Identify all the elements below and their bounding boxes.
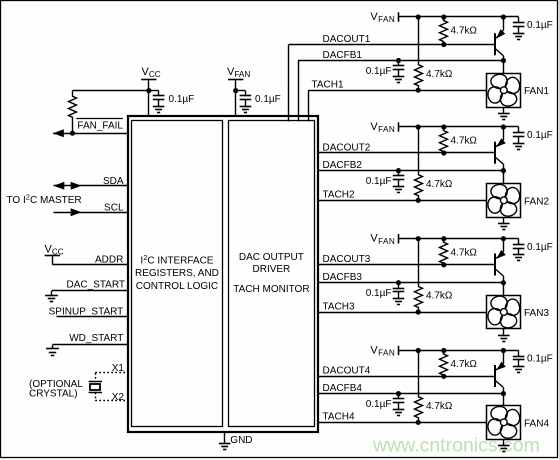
svg-text:0.1µF: 0.1µF (527, 130, 553, 141)
svg-text:TO I2C MASTER: TO I2C MASTER (7, 192, 82, 205)
svg-text:0.1µF: 0.1µF (169, 94, 195, 105)
svg-text:WD_START: WD_START (69, 333, 123, 344)
svg-text:FAN2: FAN2 (524, 196, 549, 207)
svg-text:SDA: SDA (103, 176, 124, 187)
svg-text:FAN4: FAN4 (524, 418, 549, 429)
svg-text:0.1µF: 0.1µF (366, 66, 392, 77)
svg-text:0.1µF: 0.1µF (366, 288, 392, 299)
svg-text:CRYSTAL): CRYSTAL) (29, 388, 78, 399)
svg-text:I2C INTERFACE: I2C INTERFACE (140, 253, 213, 266)
svg-text:TACH1: TACH1 (312, 80, 344, 91)
svg-text:0.1µF: 0.1µF (366, 399, 392, 410)
svg-text:4.7kΩ: 4.7kΩ (451, 247, 478, 258)
svg-text:DRIVER: DRIVER (253, 264, 291, 275)
svg-text:TACH4: TACH4 (323, 412, 355, 423)
svg-text:REGISTERS, AND: REGISTERS, AND (135, 268, 219, 279)
svg-text:SPINUP_START: SPINUP_START (49, 306, 124, 317)
svg-text:0.1µF: 0.1µF (527, 20, 553, 31)
svg-text:4.7kΩ: 4.7kΩ (451, 136, 478, 147)
svg-text:X2: X2 (112, 392, 125, 403)
svg-text:DACOUT1: DACOUT1 (323, 34, 371, 45)
svg-text:TACH2: TACH2 (323, 190, 355, 201)
svg-text:DACOUT2: DACOUT2 (323, 142, 371, 153)
svg-text:0.1µF: 0.1µF (527, 354, 553, 365)
svg-text:0.1µF: 0.1µF (527, 242, 553, 253)
svg-text:DACFB1: DACFB1 (323, 50, 363, 61)
svg-text:DAC_START: DAC_START (66, 280, 125, 291)
svg-text:TACH MONITOR: TACH MONITOR (233, 284, 309, 295)
svg-text:DACFB3: DACFB3 (323, 272, 363, 283)
svg-text:FAN3: FAN3 (524, 308, 549, 319)
svg-text:4.7kΩ: 4.7kΩ (426, 401, 453, 412)
svg-text:GND: GND (230, 435, 252, 446)
svg-text:0.1µF: 0.1µF (255, 94, 281, 105)
svg-text:SCL: SCL (104, 203, 124, 214)
svg-text:ADDR: ADDR (95, 255, 123, 266)
svg-text:TACH3: TACH3 (323, 301, 355, 312)
svg-text:4.7kΩ: 4.7kΩ (426, 179, 453, 190)
svg-text:DAC OUTPUT: DAC OUTPUT (239, 252, 304, 263)
svg-text:FAN_FAIL: FAN_FAIL (77, 121, 123, 132)
svg-text:4.7kΩ: 4.7kΩ (426, 69, 453, 80)
svg-text:CONTROL LOGIC: CONTROL LOGIC (136, 281, 218, 292)
svg-text:DACFB4: DACFB4 (323, 383, 363, 394)
svg-text:DACFB2: DACFB2 (323, 160, 363, 171)
svg-text:DACOUT4: DACOUT4 (323, 366, 371, 377)
svg-text:DACOUT3: DACOUT3 (323, 254, 371, 265)
svg-text:0.1µF: 0.1µF (366, 176, 392, 187)
svg-text:X1: X1 (112, 363, 125, 374)
svg-text:FAN1: FAN1 (524, 86, 549, 97)
svg-text:4.7kΩ: 4.7kΩ (451, 359, 478, 370)
svg-text:4.7kΩ: 4.7kΩ (451, 26, 478, 37)
svg-text:www.cntronics.com: www.cntronics.com (372, 435, 540, 457)
svg-text:4.7kΩ: 4.7kΩ (426, 291, 453, 302)
